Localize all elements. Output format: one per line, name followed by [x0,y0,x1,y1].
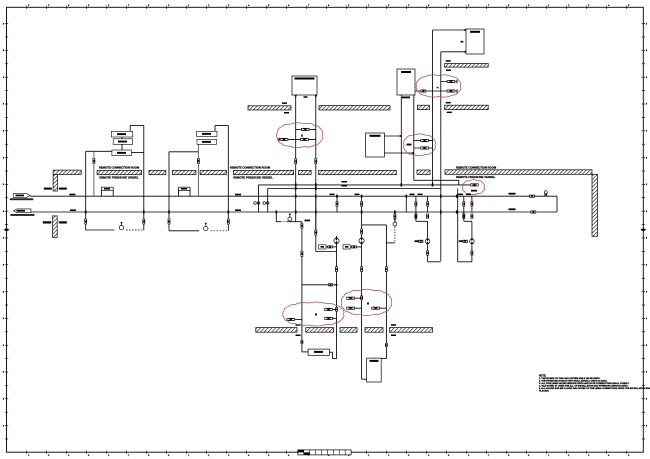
reg3 valve low [385,266,388,272]
wall seg [173,170,196,174]
gas pipe R valve [314,159,317,165]
u2 relief valve [459,240,468,243]
collector line C [414,179,459,181]
wall mid level [319,106,390,110]
wall seg [299,170,312,174]
revision cloud 1 [277,123,323,148]
svg-text:8: 8 [3,104,4,106]
inlet flag line2 [10,209,34,216]
svg-text:2: 2 [388,5,389,7]
right gas drop valve [314,230,317,236]
revision cloud 3 [416,75,461,97]
main gas line 2 [31,211,557,213]
unit2 valve left low [168,219,171,225]
appliance box 1 [308,349,329,355]
gas box pipe right [315,95,317,232]
stub labels [330,194,472,196]
svg-text:REMOTE PRESSURE VESSEL: REMOTE PRESSURE VESSEL [99,175,139,179]
junction line [302,283,338,286]
svg-text:2: 2 [208,5,209,7]
svg-text:2: 2 [568,455,569,457]
svg-text:3: 3 [228,5,229,7]
reg2 valve up [360,229,363,235]
heater pipe left [400,95,402,185]
svg-text:1: 1 [548,455,549,457]
right collector valve [470,183,478,191]
line1 size label [69,194,75,196]
svg-text:8: 8 [3,157,4,159]
wall mid level right [445,105,489,109]
reg1 upper stub [336,236,338,252]
svg-text:5: 5 [88,455,89,457]
wall seg [417,170,430,174]
svg-text:6: 6 [468,5,469,7]
wall low1 [256,328,297,333]
regulator 2 [359,238,364,244]
svg-text:8: 8 [646,23,647,25]
svg-text:8: 8 [3,399,4,401]
main interconnect stubs [336,196,474,212]
svg-text:B: B [301,134,303,137]
svg-text:8: 8 [646,238,647,240]
wall right corner leg [592,174,598,236]
svg-text:8: 8 [646,211,647,213]
unit3 meter riser [394,212,396,243]
svg-text:8: 8 [646,184,647,186]
svg-text:5: 5 [628,5,629,7]
svg-text:3: 3 [228,455,229,457]
reg1 pipe [336,252,338,359]
svg-text:3: 3 [408,455,409,457]
line2 valve right [531,211,537,214]
svg-text:8: 8 [646,77,647,79]
mid right valve group [407,139,433,149]
svg-text:8: 8 [508,5,509,7]
reg1 relief [319,245,337,249]
unit1 gas meter [119,222,123,230]
line1 valve right [529,195,535,198]
box1 feed [302,351,308,353]
svg-text:8: 8 [508,455,509,457]
u2 valve below [471,251,474,256]
svg-text:M: M [315,314,317,317]
regulator 1 [334,238,339,244]
man box [366,133,385,157]
collector C drop [458,180,460,185]
center drop pipe [301,222,304,352]
svg-text:2: 2 [388,455,389,457]
svg-text:5: 5 [88,5,89,7]
unit1 box A3 [112,150,132,156]
wall +4 level [445,64,489,68]
man link top [384,135,401,137]
svg-text:M: M [367,302,369,305]
unit2 box B2 [197,139,217,144]
u1 valve below [426,251,429,256]
reg2 valve low [360,266,363,272]
svg-text:8: 8 [646,131,647,133]
dra pipe 2 [440,52,442,261]
unit3 riser valve [394,214,397,219]
svg-text:6: 6 [288,455,289,457]
unit3 gas meter [393,218,397,226]
wall seg [200,170,226,174]
revision cloud D [462,180,484,195]
u1 entry stub [416,212,428,221]
graphic scale bar [298,450,351,455]
svg-text:7: 7 [488,455,489,457]
wall center unit [233,170,293,174]
svg-text:7: 7 [128,455,129,457]
collector line B [268,188,441,190]
svg-text:6: 6 [468,455,469,457]
svg-text:7: 7 [488,5,489,7]
unit2 meter loop [169,230,228,232]
center meter loop [276,212,302,222]
unit1 valve left low [84,219,87,225]
main gas line 1 [30,195,557,197]
revision cloud A [283,302,344,326]
box2 feed right [381,358,386,360]
svg-text:8: 8 [646,372,647,374]
wall seg [319,170,397,174]
svg-text:8: 8 [3,318,4,320]
svg-text:1: 1 [548,5,549,7]
main line right connector [556,196,558,212]
top center valve group [279,128,316,141]
svg-text:2: 2 [28,5,29,7]
svg-text:8: 8 [328,5,329,7]
dra pipe 1 [432,30,434,185]
u2 entry stub [464,212,472,221]
wall lower-left vertical leg [53,216,58,238]
revision cloud C [404,134,436,156]
svg-text:8: 8 [148,5,149,7]
gas box pipe left [295,95,297,222]
svg-text:1: 1 [188,455,189,457]
wall elevation labels [282,60,452,336]
u2 loop [458,189,472,262]
svg-text:7: 7 [128,5,129,7]
svg-text:7: 7 [308,5,309,7]
wall unit1 [97,170,141,174]
line2 label right [509,208,516,210]
svg-text:REMOTE CONNECTION ROOM: REMOTE CONNECTION ROOM [99,166,140,170]
svg-text:9: 9 [348,5,349,7]
svg-text:5: 5 [268,455,269,457]
wall L upper-left horizontal [53,170,81,174]
svg-text:1: 1 [368,5,369,7]
reg2 pipe [361,212,363,379]
svg-text:8: 8 [646,399,647,401]
collector line A [259,184,471,186]
svg-text:9: 9 [528,5,529,7]
svg-text:8: 8 [148,455,149,457]
svg-text:8: 8 [646,265,647,267]
svg-text:8: 8 [646,157,647,159]
wall leg labels [43,188,67,224]
cloud B valves [346,296,386,310]
reg2 relief [343,245,362,249]
heater pipe right [413,95,415,180]
unit1 bypass box [101,187,113,196]
wall low5 [390,328,433,333]
svg-text:6: 6 [288,5,289,7]
svg-text:2: 2 [28,455,29,457]
u1 regulator [425,239,430,244]
box2 feed left [362,378,367,380]
collector labels [342,181,348,187]
dra box [460,29,484,54]
line1 label mid [235,194,241,196]
unit1 valve right low [142,219,145,225]
center drop valve2 [301,251,304,257]
sheet center markers [4,228,647,453]
junction ticks [85,183,458,213]
collector A drop [258,185,260,212]
svg-text:3: 3 [408,5,409,7]
svg-text:8: 8 [3,211,4,213]
heater box [397,69,415,98]
svg-text:ER: ER [460,42,463,44]
right wall text [456,165,497,179]
svg-text:8: 8 [646,425,647,427]
u2 regulator [470,239,475,244]
svg-text:8: 8 [3,23,4,25]
unit2 gas meter [204,223,208,231]
svg-text:8: 8 [3,77,4,79]
svg-text:6: 6 [108,5,109,7]
svg-text:8: 8 [3,345,4,347]
svg-text:8: 8 [646,104,647,106]
svg-text:2: 2 [568,5,569,7]
unit1 box A1 [111,131,132,137]
svg-text:REMOTE PRESSURE VESSEL: REMOTE PRESSURE VESSEL [233,175,273,179]
unit1 box links [122,137,144,153]
svg-text:3: 3 [588,5,589,7]
svg-text:2: 2 [208,455,209,457]
svg-text:1: 1 [188,5,189,7]
svg-text:5: 5 [628,455,629,457]
line2 label mid [235,209,241,211]
svg-text:5: 5 [448,5,449,7]
svg-text:8: 8 [646,291,647,293]
svg-text:3: 3 [588,455,589,457]
reg1 valve low [335,266,338,272]
svg-text:8: 8 [646,50,647,52]
svg-text:8: 8 [646,345,647,347]
svg-text:9: 9 [168,455,169,457]
unit2 valve right low [227,219,230,225]
svg-text:8: 8 [3,425,4,427]
svg-text:PLACING.: PLACING. [539,389,550,392]
svg-text:8: 8 [3,265,4,267]
svg-text:5: 5 [448,455,449,457]
svg-text:8: 8 [3,291,4,293]
wall seg [149,170,166,174]
inlet flag line1 [10,194,34,201]
unit1 box A2 [113,139,133,145]
svg-text:REMOTE CONNECTION ROOM: REMOTE CONNECTION ROOM [230,166,271,170]
man link bottom [384,152,413,154]
svg-text:3: 3 [48,455,49,457]
wall low2 [306,328,334,333]
unit2 piping [169,126,228,231]
wall mid level small [417,105,429,109]
cloud A valves [287,307,338,321]
center gas meter [288,213,310,221]
svg-text:5: 5 [268,5,269,7]
dra feed top [433,29,467,31]
unit1 wall text [99,166,140,180]
wall right + corner [445,170,592,175]
wall mid level left [248,106,291,110]
svg-text:8: 8 [3,131,4,133]
svg-text:1: 1 [368,455,369,457]
right gas drop [316,222,337,252]
svg-text:8: 8 [3,238,4,240]
svg-text:8: 8 [3,50,4,52]
gas pipe L valve [294,159,297,165]
u1 relief valve [415,240,424,243]
svg-text:6: 6 [108,455,109,457]
svg-text:REMOTE CONNECTION ROOM: REMOTE CONNECTION ROOM [456,165,497,169]
dra feed mid [441,51,466,53]
svg-text:8: 8 [646,318,647,320]
line1 label right [509,193,516,195]
wall low3 [340,328,357,333]
svg-text:8: 8 [3,184,4,186]
top right valve group [415,80,457,93]
svg-text:REMOTE PRESSURE VESSEL: REMOTE PRESSURE VESSEL [456,175,496,179]
below line2 valves right [415,214,474,219]
appliance box 2 [367,358,382,382]
revision cloud B [341,289,391,315]
svg-text:5. ALL VALVES AND BE PLACED GA: 5. ALL VALVES AND BE PLACED GAS NOTED OF… [539,387,650,390]
gas service entrance box [292,76,317,98]
collector A valve [254,202,269,205]
svg-text:9: 9 [528,455,529,457]
center drop valve1 [301,223,304,228]
unit3 meter loop [362,225,395,359]
wall L upper-left vertical leg [53,174,57,191]
center wall text [230,166,273,180]
wall low4 [365,328,383,333]
line1 relief valve [544,191,547,197]
collector B drop [267,189,269,213]
svg-text:8: 8 [3,372,4,374]
box1 out elbow [330,352,337,358]
unit2 bypass box [179,187,191,196]
u1 loop [428,221,441,261]
line2 size label [70,209,76,211]
notes block [539,376,650,393]
svg-text:9: 9 [168,5,169,7]
right gas drop upper [315,195,317,222]
unit1 meter loop [86,229,144,231]
unit1 piping [86,126,144,231]
svg-text:3: 3 [48,5,49,7]
unit2 box B1 [197,131,218,136]
